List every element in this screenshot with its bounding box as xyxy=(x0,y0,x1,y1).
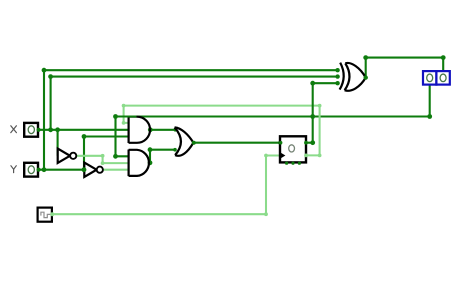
wire: OR output to FF D input (y=142.7) xyxy=(194,142,281,144)
output pin Z0 (left blue box) xyxy=(423,71,436,85)
wire: XOR output up and right then down to output pin Z1 xyxy=(366,58,444,78)
node: light corner dot at (266,155.5) xyxy=(264,154,268,158)
node: junction dot on X wire at (50.6,129.8) xyxy=(48,127,53,132)
node: corner dot at (115.5,116.5) xyxy=(113,114,118,119)
node: corner dot at (50.6,76.6) xyxy=(48,74,53,79)
node: light corner dot at (319.6,155.4) xyxy=(318,154,322,158)
wire: X pin to AND1 input 2 (y=129.8) xyxy=(38,129,129,131)
wire: AND2 output up and right to OR input 2 xyxy=(150,150,175,163)
node: junction dot Q rail at (312.7,116.5) xyxy=(310,114,315,119)
wire: net Y top rail (x=44 riser and y=70 horizontal to XOR input 1) xyxy=(44,70,338,170)
node: light corner dot at (102.6,163.1) xyxy=(101,161,105,165)
node: junction dot on Y wire at (44,169.7) xyxy=(42,167,47,172)
wire: net X top rail (x=50.6 riser and y=76.6 horizontal to XOR input 2) xyxy=(51,77,338,130)
input pin X xyxy=(24,123,41,137)
node: XOR output junction dot xyxy=(364,75,368,79)
node: FF D input dot xyxy=(278,141,282,145)
wire: Q feedback rail y=116.5 from x=115.5 to x=429.7 xyxy=(116,115,430,117)
node: FF D input pin dot redrawn xyxy=(279,141,283,145)
wire: Y pin to NOT2 input (y=169.7) xyxy=(38,169,84,171)
AND gate AND2 xyxy=(129,150,149,177)
wire: X tap down to NOT1 input (x=57.6) xyxy=(57,130,59,156)
node: corner dot at (44,70.2) xyxy=(42,68,47,73)
inverter NOT1 xyxy=(58,149,77,163)
wire: Qbar net (light green): FF Qbar right, up, left along y=105.6, down to AND1 input 1 xyxy=(124,106,320,156)
wire: rail drop to AND2 input 1 (x=115.5 down, then y=156.3 right) xyxy=(116,117,129,157)
node: light corner dot at (319.6,105.6) xyxy=(318,104,322,108)
AND gate AND1 xyxy=(129,116,150,143)
node: AND1 output dot xyxy=(148,127,153,132)
node: corner dot at (365.9,57.6) xyxy=(363,55,368,60)
node: FF bottom unconnected pin stubs xyxy=(285,162,301,165)
node: corner dot at (84,136.5) xyxy=(82,134,87,139)
node: clock output pin dot redrawn xyxy=(50,212,54,216)
node: FF Qbar pin dot xyxy=(304,153,308,157)
label X xyxy=(11,126,17,133)
node: FF Qbar pin dot redrawn xyxy=(304,154,308,158)
wire: Y riser to AND1 input 3 (x=84 up, then y=136.5 right) xyxy=(84,137,129,170)
node: corner dot at (150,149.7) xyxy=(148,147,153,152)
label Y xyxy=(11,166,16,173)
wire: clock net (light green) to FF clock input xyxy=(52,156,280,215)
node: light corner dot at (123.6,122.9) xyxy=(122,121,126,125)
OR gate OR1 xyxy=(175,127,194,155)
input pin Y xyxy=(24,163,41,177)
wire: FF Q output right, junction, up to XOR input 3 xyxy=(306,83,338,143)
node: OR input 1 stub dot xyxy=(174,128,178,132)
node: corner dot at (115.5,156.3) xyxy=(113,154,118,159)
node: corner dot at (443.2,57.6) xyxy=(441,55,446,60)
clock CLK xyxy=(38,208,52,222)
node: clock pin dot xyxy=(50,212,54,216)
node: junction dot at (312.7,142.7) xyxy=(310,140,315,145)
wire: NOT1 output (light green) to AND2 input 2 xyxy=(76,156,129,163)
node: junction dot at NOT2 input redrawn xyxy=(82,167,87,172)
output pin Z1 (right blue box) xyxy=(436,71,449,85)
node: XOR input end dots xyxy=(335,68,339,72)
XOR gate XOR1 xyxy=(340,63,366,91)
node: junction dot at (84,169.7) NOT2 input tee xyxy=(82,167,87,172)
wire: AND1 output to OR input 1 (y=129.8) xyxy=(150,129,175,131)
node: junction dot at (57.6,129.8) xyxy=(55,127,60,132)
wire: output pin Z0 bottom down to Q rail xyxy=(429,85,431,117)
D flip-flop U1 xyxy=(279,136,306,162)
node: corner dot at (429.7,116.5) xyxy=(427,114,432,119)
node: AND2 output dot xyxy=(148,160,153,165)
node: light corner dot at (102.6,155.8) xyxy=(101,154,105,158)
node: light corner dot at (266,214.6) xyxy=(264,212,268,216)
wire: NOT2 output (light green) to AND2 input 3 xyxy=(103,169,128,171)
wire: Q rail overlap across AND1 top edge xyxy=(116,115,137,117)
node: light corner dot at (123.6,105.6) xyxy=(122,104,126,108)
node: corner dot at (312.7,83.2) xyxy=(310,81,315,86)
node: OR input 2 stub dot xyxy=(173,148,177,152)
node: FF Q output pin dot xyxy=(304,141,308,145)
inverter NOT2 xyxy=(84,163,103,177)
node: OR output dot xyxy=(192,141,196,145)
